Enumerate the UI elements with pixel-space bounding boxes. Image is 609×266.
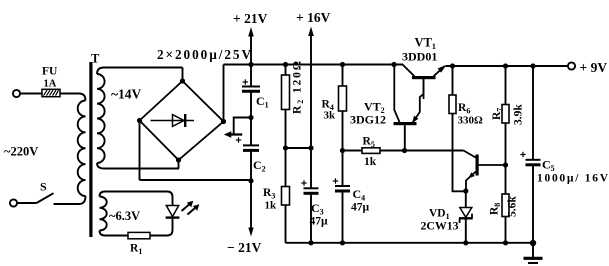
wire: [105, 235, 128, 237]
transistor error amp: [476, 155, 479, 176]
node: [283, 145, 288, 150]
node C1C2 midpoint: [248, 115, 253, 120]
svg-text:R6: R6: [458, 102, 470, 116]
wire: [380, 150, 405, 152]
wire: [453, 114, 465, 192]
output terminal +9V: [568, 62, 575, 69]
transistor VT2 3DG12: [394, 122, 417, 125]
rail +16V arrow: [310, 33, 312, 148]
svg-text:47µ: 47µ: [351, 202, 370, 214]
wire: [343, 150, 363, 152]
svg-text:T: T: [91, 52, 100, 66]
svg-text:3.9k: 3.9k: [513, 104, 525, 125]
input terminal top: [13, 90, 20, 97]
svg-text:C3: C3: [311, 201, 324, 217]
svg-text:47µ: 47µ: [310, 216, 329, 228]
chassis arrow: [228, 133, 242, 135]
wire: [465, 191, 467, 208]
wire: [54, 196, 86, 204]
node: [530, 63, 535, 68]
wire +21V bus: [224, 64, 404, 66]
svg-text:R3: R3: [263, 187, 275, 201]
wire: [342, 111, 344, 151]
svg-text:R5: R5: [363, 136, 375, 150]
wire: [405, 150, 464, 152]
resistor R4: [339, 86, 347, 111]
wire: [505, 164, 507, 194]
switch S: [37, 193, 54, 203]
fuse FU 1A: [42, 89, 60, 96]
svg-text:+ 21V: + 21V: [233, 11, 268, 26]
node: [503, 240, 508, 245]
node: [391, 62, 396, 67]
rail -21V arrow: [250, 181, 252, 229]
wire: [505, 123, 507, 164]
LED VD pilot: [166, 206, 178, 217]
rail +21V arrow: [250, 33, 252, 65]
node: [463, 240, 468, 245]
node: [340, 62, 345, 67]
capacitor C4: [335, 185, 350, 187]
wire: [310, 193, 312, 243]
resistor R8: [502, 194, 509, 217]
node bridge bottom: [176, 157, 181, 162]
svg-text:330Ω: 330Ω: [458, 115, 484, 127]
svg-text:3DD01: 3DD01: [402, 50, 437, 64]
wire: [465, 218, 467, 243]
node: [308, 145, 313, 150]
wire: [105, 192, 173, 206]
node bridge right: [221, 119, 226, 124]
wire: [234, 118, 251, 135]
transformer core: [89, 62, 92, 237]
svg-text:C4: C4: [353, 187, 366, 203]
resistor R6: [449, 95, 456, 114]
capacitor C3: [304, 187, 319, 189]
svg-text:S: S: [40, 180, 47, 194]
resistor R5: [362, 148, 380, 154]
input terminal bottom: [10, 199, 17, 206]
svg-text:~6.3V: ~6.3V: [109, 209, 140, 223]
wire: [342, 151, 344, 187]
wire: [104, 168, 179, 170]
node bridge left: [137, 118, 142, 123]
svg-text:+ 9V: + 9V: [580, 60, 608, 75]
wire: [452, 66, 454, 95]
wire 0V bus: [286, 242, 534, 244]
svg-text:C1: C1: [256, 94, 269, 110]
node: [308, 240, 313, 245]
resistor R7: [502, 105, 509, 124]
wire: [505, 217, 507, 243]
wire: [285, 110, 287, 149]
LED light arrows: [182, 203, 191, 211]
svg-text:2×2000µ/25V: 2×2000µ/25V: [157, 47, 251, 62]
wire: [140, 179, 252, 181]
transformer secondary 14V winding: [97, 68, 104, 75]
svg-text:1000µ/ 16V: 1000µ/ 16V: [537, 173, 609, 185]
wire: [505, 66, 507, 105]
wire: [342, 191, 344, 243]
capacitor C5: [526, 159, 541, 161]
wire: [285, 148, 287, 187]
wire: [17, 202, 37, 204]
node: [340, 240, 345, 245]
wire: [182, 68, 184, 82]
svg-text:~220V: ~220V: [4, 145, 38, 159]
svg-text:C2: C2: [253, 158, 266, 174]
capacitor C2: [243, 144, 259, 146]
wire: [150, 219, 173, 236]
node: [450, 63, 455, 68]
node bridge top: [180, 78, 185, 83]
ground: [532, 243, 534, 258]
wire: [20, 93, 42, 95]
node: [340, 148, 345, 153]
wire: [60, 93, 79, 95]
wire: [285, 205, 287, 243]
transformer secondary 6.3V winding: [100, 192, 106, 197]
svg-text:FU: FU: [42, 66, 58, 78]
svg-text:3DG12: 3DG12: [350, 113, 386, 127]
transformer primary winding: [79, 94, 86, 101]
wire: [342, 65, 344, 87]
node: [283, 62, 288, 67]
node: [402, 148, 407, 153]
svg-text:1k: 1k: [364, 156, 377, 168]
svg-text:1k: 1k: [265, 200, 278, 212]
svg-text:+ 16V: + 16V: [296, 10, 331, 25]
wire: [310, 148, 312, 188]
node: [503, 63, 508, 68]
wire: [532, 165, 534, 243]
node: [248, 62, 253, 67]
node: [463, 188, 468, 193]
resistor R2: [282, 75, 290, 110]
svg-text:C5: C5: [542, 158, 555, 174]
wire +9V bus: [446, 65, 569, 67]
wire: [250, 91, 252, 145]
node: [530, 240, 536, 246]
zener diode VD1 2CW13: [460, 208, 472, 218]
svg-text:R8: R8: [489, 203, 503, 215]
svg-text:2CW13: 2CW13: [421, 219, 459, 233]
wire: [104, 67, 183, 69]
wire: [139, 121, 141, 181]
wire: [250, 65, 252, 87]
node: [248, 178, 253, 183]
node: [503, 162, 508, 167]
wire: [532, 66, 534, 160]
svg-text:3k: 3k: [324, 110, 337, 122]
capacitor C1: [242, 86, 260, 88]
wire: [223, 65, 225, 122]
svg-text:R2 120Ω: R2 120Ω: [292, 61, 306, 114]
bridge internal diode: [151, 120, 195, 122]
svg-text:R7: R7: [491, 108, 505, 120]
resistor R3: [282, 187, 290, 206]
resistor R1: [128, 232, 150, 238]
wire: [285, 65, 287, 76]
svg-text:5.6k: 5.6k: [507, 196, 519, 217]
svg-text:1A: 1A: [44, 79, 57, 90]
wire: [178, 160, 180, 169]
svg-text:~14V: ~14V: [111, 87, 142, 102]
bridge rectifier diamond: [140, 81, 224, 160]
transistor VT1 3DD01: [412, 76, 436, 79]
svg-text:− 21V: − 21V: [227, 240, 262, 255]
svg-text:R1: R1: [130, 243, 142, 257]
wire: [286, 147, 312, 149]
wire: [250, 150, 252, 180]
